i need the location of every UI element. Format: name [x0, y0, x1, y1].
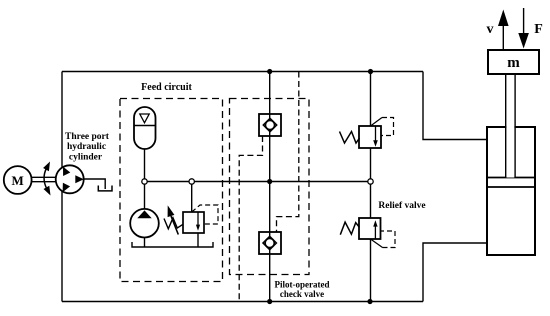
- tank symbol: [98, 186, 112, 191]
- spring RV1: [340, 132, 360, 144]
- pilot loop RV3: [192, 205, 218, 224]
- svg-text:Feed circuit: Feed circuit: [141, 82, 192, 93]
- wire pump to tank: [84, 179, 105, 189]
- svg-text:cylinder: cylinder: [69, 153, 103, 163]
- svg-text:v: v: [487, 22, 494, 37]
- wire feed relief stem: [191, 182, 193, 213]
- pilot loop RV2: [371, 231, 396, 248]
- svg-text:Three port: Three port: [65, 132, 110, 142]
- wire feed relief to tank bracket: [197, 233, 199, 247]
- wire to cylinder bottom port: [423, 243, 487, 302]
- wire relief valve branch: [370, 72, 372, 302]
- velocity arrow v: [498, 10, 509, 51]
- dashed box Feed circuit: [120, 99, 223, 282]
- svg-text:Relief valve: Relief valve: [378, 201, 425, 211]
- mass m: [488, 50, 539, 74]
- pump P1 three-port: [56, 165, 84, 193]
- check valve CV2 lower: [259, 232, 281, 254]
- junction top rail at relief branch: [368, 69, 373, 74]
- wire feed pump to tank bracket: [144, 238, 146, 248]
- label v: [487, 22, 494, 37]
- wire left rail: [61, 72, 63, 302]
- wire top rail: [62, 71, 423, 73]
- svg-text:F: F: [534, 22, 543, 37]
- force arrow F: [518, 8, 529, 49]
- accumulator A1: [134, 107, 156, 149]
- node mid relief open: [368, 179, 373, 184]
- spring RV2: [340, 222, 359, 235]
- dashed box Pilot-operated check valve: [230, 99, 310, 275]
- svg-text:Pilot-operated: Pilot-operated: [275, 280, 330, 290]
- pilot line upper check valve: [239, 136, 262, 302]
- svg-text:m: m: [507, 55, 520, 71]
- piston rod: [506, 74, 515, 178]
- pilot line lower check valve: [277, 72, 299, 233]
- wire check valve branch: [269, 72, 271, 302]
- spring RV3: [164, 218, 183, 229]
- rotation arrow: [43, 162, 50, 196]
- relief valve RV2 lower: [359, 218, 381, 239]
- wire accumulator stem: [144, 149, 146, 209]
- cylinder body: [487, 127, 535, 255]
- junction top rail at check branch: [267, 69, 272, 74]
- motor M1: [4, 166, 32, 194]
- label Pilot-operated check valve: [275, 280, 330, 300]
- junction mid at check branch: [267, 179, 272, 184]
- label F: [534, 22, 543, 37]
- wire to cylinder top port: [423, 72, 487, 140]
- feed pump P2: [130, 209, 159, 238]
- node feed relief open: [189, 179, 194, 184]
- junction bottom rail at check branch: [267, 299, 272, 304]
- node accumulator open: [142, 179, 147, 184]
- relief valve RV1 upper: [359, 126, 381, 148]
- svg-text:check valve: check valve: [280, 289, 324, 299]
- wire bottom rail: [62, 301, 423, 303]
- wire mid line node A: [145, 181, 371, 183]
- tank bracket feed circuit: [132, 242, 213, 247]
- junction bottom rail at relief branch: [367, 299, 372, 304]
- svg-text:hydraulic: hydraulic: [67, 142, 106, 152]
- feed relief valve RV3: [183, 212, 204, 233]
- pilot loop RV1: [371, 118, 394, 136]
- adjustment arrow RV3: [168, 205, 179, 234]
- label Feed circuit: [141, 82, 192, 93]
- label Three port hydraulic cylinder: [65, 132, 110, 163]
- label Relief valve: [378, 201, 425, 211]
- check valve CV1 upper: [259, 114, 281, 136]
- svg-text:M: M: [12, 173, 24, 188]
- shaft motor to pump: [32, 177, 57, 181]
